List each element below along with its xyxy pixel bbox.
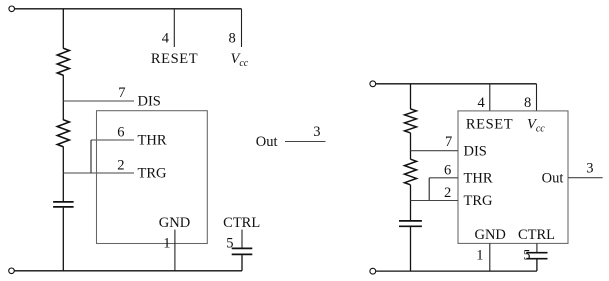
wire top rail: [15, 8, 242, 10]
wire TRG pin 2: [63, 172, 134, 174]
wire rail between R3 and R4: [410, 133, 412, 160]
svg-text:TRG: TRG: [464, 193, 494, 209]
wire C4 to bottom rail right: [536, 259, 538, 271]
resistor R2: [57, 120, 69, 147]
capacitor C2 (CTRL): [232, 248, 253, 254]
wire bracket THR-TRG: [90, 140, 92, 173]
svg-text:3: 3: [313, 124, 320, 140]
wire Out pin 3: [285, 141, 326, 143]
capacitor C4 (CTRL right): [526, 253, 547, 259]
svg-text:CTRL: CTRL: [223, 215, 260, 231]
svg-text:Out: Out: [256, 134, 278, 150]
svg-text:8: 8: [524, 95, 531, 111]
svg-text:2: 2: [444, 185, 451, 201]
capacitor C1: [53, 202, 74, 207]
wire capacitor to bottom rail right: [410, 227, 412, 271]
svg-text:RESET: RESET: [466, 116, 513, 132]
pin 1 stub: [174, 230, 176, 271]
svg-text:4: 4: [162, 30, 170, 46]
terminal bottom-left: [9, 268, 15, 274]
svg-text:5: 5: [523, 248, 530, 264]
capacitor C3: [399, 221, 422, 226]
svg-text:1: 1: [163, 235, 170, 251]
svg-text:GND: GND: [474, 227, 505, 243]
wire bracket THR-TRG right: [428, 178, 430, 201]
wire DIS pin 7 right: [411, 150, 459, 152]
wire right rail upper: [410, 84, 412, 109]
svg-text:7: 7: [445, 134, 452, 150]
wire left rail upper: [62, 9, 64, 49]
wire bottom rail right: [376, 270, 537, 272]
wire TRG pin 2 right: [411, 200, 459, 202]
wire rail between R1 and R2: [62, 75, 64, 120]
wire capacitor to bottom rail: [62, 208, 64, 271]
svg-text:1: 1: [476, 248, 483, 264]
svg-text:RESET: RESET: [151, 51, 198, 67]
svg-text:TRG: TRG: [138, 166, 168, 182]
terminal top-right circuit: [370, 81, 376, 87]
svg-text:Vcc: Vcc: [231, 51, 249, 69]
resistor R1: [57, 48, 69, 75]
wire bottom rail: [14, 270, 242, 272]
svg-text:6: 6: [444, 163, 451, 179]
pin 1 stub right: [489, 243, 491, 271]
terminal top-left: [9, 6, 15, 12]
svg-text:DIS: DIS: [464, 143, 487, 159]
wire rail R2 to capacitor: [62, 147, 64, 202]
resistor R4: [405, 159, 417, 185]
svg-text:Out: Out: [542, 170, 564, 186]
svg-text:7: 7: [118, 85, 125, 101]
pin 5 stub: [241, 230, 243, 248]
pin 4 stub right: [489, 84, 491, 111]
svg-text:DIS: DIS: [138, 94, 161, 110]
svg-text:CTRL: CTRL: [518, 227, 555, 243]
wire Out pin 3 right: [568, 177, 603, 179]
svg-text:6: 6: [117, 125, 124, 141]
svg-text:2: 2: [117, 158, 124, 174]
wire top rail right: [376, 83, 537, 85]
svg-text:Vcc: Vcc: [527, 116, 545, 134]
wire THR pin 6: [91, 139, 134, 141]
wire rail R4 to capacitor: [410, 185, 412, 220]
svg-text:THR: THR: [138, 133, 167, 149]
svg-text:3: 3: [586, 161, 593, 177]
svg-text:GND: GND: [159, 215, 190, 231]
IC box U1: [97, 111, 208, 244]
svg-text:8: 8: [229, 30, 236, 46]
svg-text:THR: THR: [464, 170, 493, 186]
wire C2 to bottom rail: [241, 255, 243, 271]
wire DIS pin 7: [63, 100, 134, 102]
pin 4 stub: [173, 9, 175, 47]
wire THR pin 6 right: [429, 177, 458, 179]
pin 8 stub: [241, 9, 243, 47]
resistor R3: [405, 109, 417, 133]
pin 5 stub right: [536, 243, 538, 252]
svg-text:4: 4: [478, 95, 486, 111]
IC box U2: [458, 111, 568, 244]
terminal bottom-right circuit: [370, 268, 376, 274]
pin 8 stub right: [536, 84, 538, 111]
